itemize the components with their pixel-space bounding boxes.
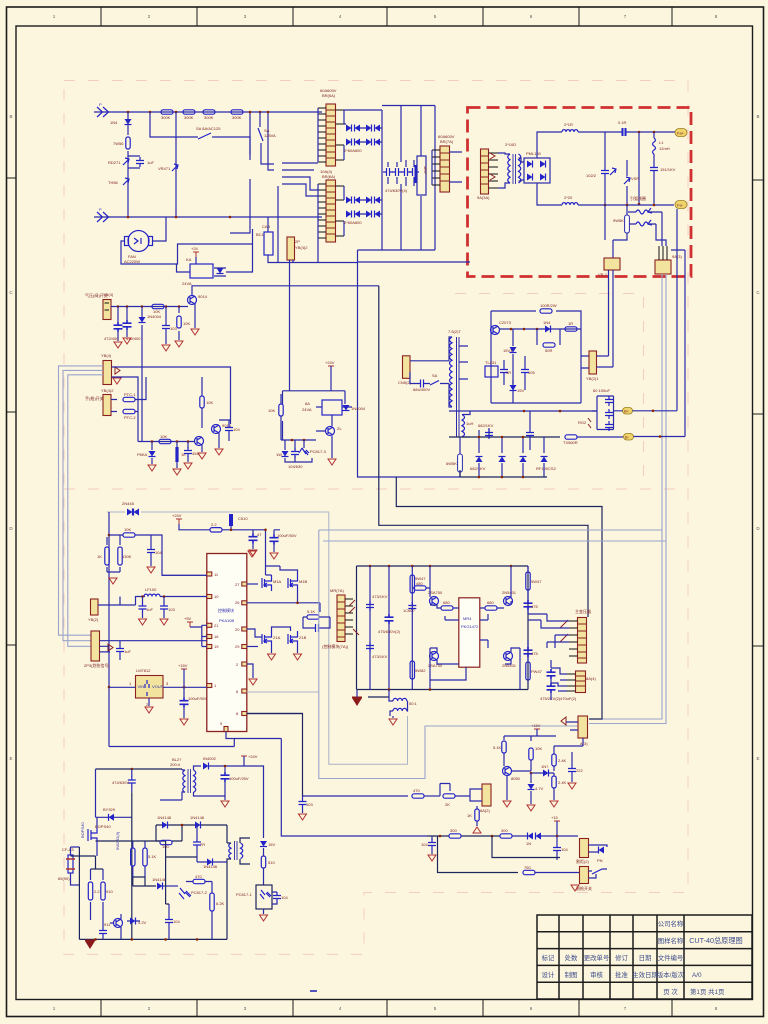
- svg-text:65(90): 65(90): [58, 876, 70, 881]
- capacitor 103 lc: [163, 597, 165, 619]
- capacitor row C 474/630V: [383, 168, 393, 176]
- wire B- rail: [449, 436, 560, 438]
- diode BY329: [109, 814, 115, 821]
- resistor 10K: [123, 533, 135, 537]
- wire arc out: [656, 212, 666, 246]
- resistor 680 right: [485, 606, 497, 610]
- wire AC top: [94, 111, 322, 113]
- capacitor 454: [187, 442, 189, 463]
- pin 20: [242, 627, 247, 631]
- svg-text:2N5401: 2N5401: [502, 590, 517, 595]
- wire primary conns: [449, 337, 452, 407]
- input arrow L: [97, 107, 109, 117]
- resistor 9W5K: [625, 215, 630, 233]
- svg-text:+24: +24: [191, 246, 199, 251]
- wire diode out: [209, 766, 244, 772]
- terminal B-: [624, 434, 634, 441]
- wire to conn b: [535, 872, 580, 874]
- resistor 750: [523, 870, 535, 874]
- input arrow N: [97, 212, 109, 222]
- wire conn A stub: [566, 722, 578, 730]
- svg-text:2P: 2P: [295, 239, 300, 244]
- resistor 5W82 bottom: [410, 661, 414, 679]
- svg-text:B: B: [9, 114, 12, 119]
- wire supply to connector: [581, 356, 589, 368]
- wire s11 top right: [554, 738, 583, 746]
- relay coil KA1 8A 24VA: [322, 400, 342, 415]
- inductor LF100: [144, 594, 160, 596]
- capacitor 9014: [99, 927, 107, 937]
- capacitor 151/1KV: [650, 164, 658, 174]
- transformer taps: [459, 346, 468, 379]
- svg-text:2*1R: 2*1R: [564, 122, 573, 127]
- svg-text:AC220W: AC220W: [124, 259, 140, 264]
- svg-text:VIN: VIN: [138, 684, 145, 689]
- nested bus navy A: [379, 286, 588, 617]
- wire by329: [96, 816, 132, 818]
- svg-text:10K: 10K: [124, 527, 131, 532]
- ground open s9: [389, 719, 397, 725]
- svg-text:L1: L1: [659, 140, 664, 145]
- ground main solid: [85, 940, 95, 950]
- transistor 2N5401 right a: [504, 597, 513, 606]
- svg-text:BY329: BY329: [103, 807, 116, 812]
- diode pair D1a: [346, 125, 352, 132]
- svg-text:16: 16: [214, 634, 219, 639]
- wire to opto: [263, 868, 265, 885]
- svg-text:MR(7A): MR(7A): [330, 588, 344, 593]
- svg-text:M1A: M1A: [273, 579, 282, 584]
- svg-text:60 100uF: 60 100uF: [593, 388, 610, 393]
- transformer secondary: [194, 770, 196, 792]
- svg-text:1N4148: 1N4148: [190, 815, 205, 820]
- wire cap to Fa+: [629, 131, 675, 133]
- wire BR3 pins: [432, 150, 462, 185]
- resistor 6W5K: [458, 454, 463, 472]
- connector YB(4)6 rear: [91, 631, 100, 661]
- wire pin 26 net: [247, 602, 320, 604]
- capacitor 100uF/50V reg: [183, 687, 185, 718]
- svg-text:VSR: VSR: [631, 176, 639, 181]
- wire 5V to pins: [190, 625, 207, 646]
- wire bridge bottom out: [537, 183, 562, 205]
- pin 21: [207, 623, 212, 627]
- power +24V tag: [176, 519, 182, 524]
- svg-text:682/1KV: 682/1KV: [470, 466, 486, 471]
- capacitor 1C60: [408, 602, 416, 612]
- svg-text:1N: 1N: [526, 841, 531, 846]
- capacitor 10R: [503, 360, 505, 385]
- svg-text:682/1KV: 682/1KV: [478, 423, 494, 428]
- inductor C510 bead: [229, 514, 233, 526]
- connector YB(2) hf: [589, 351, 597, 374]
- power +15 tag: [554, 821, 560, 826]
- resistor PW47 right bottom: [526, 662, 530, 680]
- diode vert: [512, 329, 514, 403]
- transistor M1B mosfet: [288, 575, 298, 591]
- resistor 5W47 a: [410, 575, 414, 593]
- svg-text:M1B: M1B: [299, 579, 308, 584]
- svg-text:300K: 300K: [232, 115, 242, 120]
- svg-text:50:1: 50:1: [409, 701, 418, 706]
- capacitor 475/630V(2): [385, 614, 394, 624]
- svg-text:图样名称: 图样名称: [658, 936, 684, 945]
- wire mid2: [156, 841, 197, 904]
- wire bridge top out: [537, 132, 562, 158]
- wire black mid: [492, 836, 560, 858]
- wire gate T conn: [227, 825, 250, 939]
- wire 2P down to relay rail: [290, 260, 294, 391]
- resistor 10K pullup: [200, 396, 204, 408]
- svg-text:910: 910: [106, 889, 113, 894]
- svg-text:文件编号: 文件编号: [658, 953, 684, 962]
- resistor PTC-1: [111, 399, 117, 401]
- resistor 5.1K box: [307, 615, 319, 619]
- wire block right pins: [480, 614, 488, 648]
- bottom ruler ticks: [101, 1000, 672, 1017]
- power +15V: [534, 729, 540, 734]
- svg-text:1N4: 1N4: [543, 320, 551, 325]
- svg-text:29: 29: [235, 644, 240, 649]
- transistor M2B mosfet: [288, 631, 298, 647]
- svg-text:1N4004: 1N4004: [147, 314, 162, 319]
- wire right drv out: [505, 648, 520, 690]
- svg-text:8050: 8050: [511, 776, 521, 781]
- wire current ref LC: [120, 597, 145, 606]
- svg-text:YB(4)2: YB(4)2: [101, 388, 114, 393]
- ground near block top: [248, 551, 256, 557]
- bridge diodes: [527, 161, 533, 168]
- diode 2N448 dual: [127, 509, 133, 516]
- svg-text:222: 222: [576, 768, 583, 773]
- svg-text:105: 105: [528, 370, 535, 375]
- wire B- to riser: [634, 436, 686, 438]
- svg-text:15V1: 15V1: [503, 348, 513, 353]
- gate transformer T3: [229, 843, 243, 859]
- transistor 9014 b: [114, 919, 123, 928]
- resistor 5W2R2: [132, 841, 134, 877]
- capacitor bank 60 100uF frame: [592, 396, 614, 430]
- zone letters right: [756, 114, 760, 761]
- resistor TX560R: [565, 435, 577, 439]
- wire mid connect block left: [445, 616, 459, 620]
- svg-text:VOUT: VOUT: [152, 684, 164, 689]
- wire bottom rail s6: [460, 470, 547, 477]
- svg-text:VR471: VR471: [158, 166, 171, 171]
- svg-text:B-: B-: [625, 435, 630, 440]
- diode pair torch: [528, 833, 534, 840]
- inductor L3 2x20: [562, 203, 578, 205]
- diode pair D3a: [346, 197, 352, 204]
- pin 16: [207, 635, 212, 639]
- capacitor 222 s11: [568, 765, 576, 775]
- wire pin20 to M2 gates: [247, 629, 262, 637]
- wire primary left: [160, 769, 185, 800]
- zener 4.7V: [130, 918, 136, 925]
- title block table: [537, 915, 752, 999]
- varistor RD271: [123, 158, 129, 165]
- resistor 2.4K a: [552, 754, 556, 766]
- svg-text:Fa+: Fa+: [677, 131, 685, 136]
- wire diode to opto: [163, 885, 178, 887]
- svg-text:103: 103: [306, 802, 313, 807]
- svg-text:SA: SA: [432, 373, 438, 378]
- svg-text:TX560R: TX560R: [563, 440, 578, 445]
- resistor 300 b: [500, 834, 512, 838]
- capacitor 104: [294, 440, 296, 462]
- transformer core: [188, 769, 191, 793]
- transistor Q3: [195, 437, 204, 446]
- wire from S1 connectors to modules: [282, 163, 318, 196]
- capacitor 473/1KV b: [366, 642, 374, 652]
- diode relay: [217, 268, 224, 274]
- wire pot to lc: [98, 597, 120, 606]
- svg-text:510: 510: [268, 860, 275, 865]
- wire reg gnd: [148, 698, 150, 706]
- driver block MR4 PKG1472: [459, 598, 480, 667]
- svg-text:TH56: TH56: [108, 180, 119, 185]
- capacitor 1uF parallel: [128, 156, 140, 168]
- ground cap: [180, 719, 188, 725]
- zone numbers bottom: [53, 1006, 718, 1011]
- svg-text:100uF/25V: 100uF/25V: [229, 776, 249, 781]
- connector RL(2): [482, 784, 491, 806]
- svg-text:15V: 15V: [268, 842, 275, 847]
- svg-text:125VA: 125VA: [264, 133, 276, 138]
- wire B- riser: [671, 250, 685, 437]
- resistor 470 rm: [412, 794, 424, 798]
- grounds s11: [503, 801, 511, 807]
- svg-text:第1页 共1页: 第1页 共1页: [690, 987, 724, 996]
- svg-text:1N4148: 1N4148: [152, 877, 167, 882]
- svg-text:300K: 300K: [161, 115, 171, 120]
- svg-text:1N4148: 1N4148: [157, 815, 172, 820]
- wire diode to lower net: [141, 307, 143, 442]
- ground: [249, 550, 257, 556]
- svg-text:主变压器: 主变压器: [575, 608, 591, 614]
- connector CN 2pin: [403, 356, 411, 379]
- inductor L2 2x1R: [562, 130, 578, 132]
- RG2 mark: [588, 418, 591, 428]
- nested bus navy B: [396, 477, 602, 719]
- wire thermal: [71, 847, 80, 885]
- svg-text:8A(4): 8A(4): [586, 676, 596, 681]
- svg-text:7W56: 7W56: [113, 141, 124, 146]
- resistor 5.1K v: [502, 741, 506, 753]
- capacitor C axial 0.1R: [619, 128, 629, 136]
- ground: [114, 342, 122, 348]
- svg-text:+24V: +24V: [325, 360, 335, 365]
- wire transistor collector up to bus: [192, 286, 379, 296]
- optocoupler PC817-2: [179, 888, 191, 899]
- svg-text:LM7812: LM7812: [136, 668, 151, 673]
- faint section dashed box (outer): [64, 81, 688, 955]
- svg-text:MR4: MR4: [463, 616, 472, 621]
- connector 2P aux: [287, 237, 295, 260]
- relay contact SA slash: [198, 133, 211, 139]
- svg-text:P6KA: P6KA: [137, 452, 148, 457]
- svg-text:BC1: BC1: [256, 232, 265, 237]
- transistor Q2: [212, 425, 221, 434]
- svg-text:PML150: PML150: [526, 151, 542, 156]
- resistor 100 h: [160, 840, 172, 844]
- wire fan right to AC bottom: [153, 217, 167, 241]
- svg-text:CF-A3: CF-A3: [62, 847, 74, 852]
- svg-text:PC817-2: PC817-2: [191, 890, 208, 895]
- pin 10: [207, 595, 212, 599]
- wire diode net2: [344, 186, 382, 236]
- svg-text:TL431: TL431: [485, 360, 497, 365]
- svg-text:割炬(2): 割炬(2): [576, 858, 590, 864]
- pin 6: [242, 689, 247, 693]
- IC TL431: [485, 366, 498, 377]
- power +15V tag: [181, 669, 187, 674]
- wire block bottom pin: [430, 667, 466, 680]
- transistor M2A mosfet: [262, 631, 272, 647]
- wire bridge1 pins left vertical: [317, 108, 319, 263]
- connector YB(4)2: [103, 395, 111, 416]
- wire +24 down: [330, 366, 332, 391]
- resistor 10K h: [159, 439, 171, 443]
- svg-text:CAB: CAB: [262, 224, 271, 229]
- arrow mark: [561, 717, 566, 725]
- ground pin2: [249, 679, 257, 685]
- wire relay bottom: [331, 415, 333, 426]
- svg-text:475: 475: [531, 651, 538, 656]
- svg-text:手(枪)开关: 手(枪)开关: [85, 395, 104, 401]
- svg-text:+15V: +15V: [178, 663, 188, 668]
- svg-text:1uF: 1uF: [147, 160, 154, 165]
- wire base: [316, 431, 332, 458]
- faint dashed box output rectifier: [455, 294, 644, 490]
- svg-text:4.7V: 4.7V: [535, 786, 544, 791]
- svg-text:50R: 50R: [545, 348, 552, 353]
- svg-text:100uF/50V: 100uF/50V: [188, 696, 208, 701]
- svg-text:+15V: +15V: [531, 723, 541, 728]
- svg-text:B: B: [756, 114, 759, 119]
- regulator LM7812: [136, 676, 164, 699]
- svg-text:680: 680: [487, 600, 494, 605]
- diode 1N4004 down: [139, 317, 146, 323]
- varistor VR471: [175, 112, 177, 217]
- wire to resistor: [427, 835, 500, 837]
- capacitor 100uF/50V: [273, 530, 275, 552]
- cap 682/1KV b: [526, 429, 534, 439]
- wire M2 sources gnd: [272, 647, 298, 653]
- arrow mark rl: [473, 827, 481, 833]
- component vertical 370: [369, 566, 371, 690]
- capacitor CBB polyprop: [415, 165, 418, 183]
- wire left rail down: [108, 512, 110, 747]
- wire torch sw net a: [112, 367, 231, 420]
- wire 9014 net: [110, 914, 140, 939]
- power +24V tag: [241, 756, 247, 761]
- potentiometer 2K: [443, 794, 455, 798]
- ground: [147, 567, 155, 573]
- arrow mark: [108, 644, 113, 651]
- varistor cluster cap 102/2KV: [604, 132, 606, 204]
- wire spark gap down (to S6 connector): [609, 270, 614, 367]
- svg-text:PC817-1: PC817-1: [236, 892, 253, 897]
- svg-text:控制模块: 控制模块: [218, 607, 234, 613]
- svg-text:(控制模块(7A)): (控制模块(7A)): [322, 643, 349, 649]
- wire drv a: [430, 566, 459, 608]
- svg-text:P: P: [99, 207, 102, 212]
- diode zener 15V right: [260, 841, 267, 847]
- connector aux strip: [576, 671, 586, 693]
- svg-text:RD271: RD271: [108, 160, 121, 165]
- wire rm2: [424, 795, 440, 797]
- svg-text:YB(4): YB(4): [103, 292, 114, 297]
- arrow marks: [349, 600, 355, 613]
- capacitor 104 sense: [150, 535, 152, 566]
- cap bank caps: [605, 396, 613, 406]
- capacitor 100uF/25V: [221, 772, 230, 782]
- module BR1 body: [326, 104, 336, 166]
- svg-text:1C60?: 1C60?: [403, 608, 416, 613]
- svg-text:A/0: A/0: [692, 972, 702, 979]
- wire emitter rail: [71, 855, 96, 857]
- transistor Q 9014: [188, 296, 197, 305]
- wire strip conn: [541, 614, 569, 648]
- ground m2a: [268, 654, 276, 660]
- transistor right b: [504, 652, 513, 661]
- svg-text:6.2K: 6.2K: [216, 901, 225, 906]
- svg-text:审核: 审核: [590, 970, 603, 979]
- power +24V tag: [193, 252, 199, 257]
- connector YB(2) air switch: [103, 300, 111, 320]
- resistor 470 h: [193, 879, 205, 883]
- svg-text:104/630: 104/630: [288, 464, 303, 469]
- varistor 2: [626, 160, 628, 204]
- pin 29: [242, 645, 247, 649]
- svg-text:473/1KV: 473/1KV: [372, 594, 388, 599]
- wire secondary bottom: [462, 436, 470, 438]
- svg-text:2*10D: 2*10D: [505, 142, 516, 147]
- pin 19: [207, 645, 212, 649]
- faint section divider line: [64, 488, 688, 490]
- svg-text:公司名称: 公司名称: [658, 919, 684, 928]
- svg-text:151/1KV: 151/1KV: [660, 167, 676, 172]
- pin 1: [207, 684, 212, 688]
- svg-text:10K: 10K: [160, 434, 167, 439]
- wire collector net: [219, 420, 231, 424]
- capacitor 222 v: [193, 839, 201, 849]
- ground relay: [328, 459, 336, 465]
- wire rect row: [479, 437, 544, 477]
- svg-text:版本/版次: 版本/版次: [657, 970, 685, 979]
- optocoupler PC817-1: [256, 885, 272, 909]
- svg-text:474/630V: 474/630V: [112, 780, 129, 785]
- resistor 1R: [565, 327, 577, 331]
- svg-text:+24V: +24V: [172, 513, 182, 518]
- wire relay to diode: [316, 406, 352, 408]
- svg-text:1R: 1R: [506, 370, 511, 375]
- svg-text:472/400: 472/400: [104, 336, 119, 341]
- svg-text:750: 750: [524, 865, 531, 870]
- wire inductor to cap: [578, 131, 619, 133]
- connector A(3): [578, 716, 588, 738]
- svg-text:+5V: +5V: [184, 616, 192, 621]
- svg-text:LF100: LF100: [145, 587, 157, 592]
- wire 24V to FETs: [266, 530, 281, 566]
- optocoupler PC817-3: [303, 440, 305, 448]
- wire 470: [186, 881, 212, 883]
- capacitor 1uF lc: [142, 597, 144, 619]
- wire aux conn: [551, 668, 567, 691]
- svg-text:300K: 300K: [204, 115, 214, 120]
- wire down left chain: [127, 112, 129, 217]
